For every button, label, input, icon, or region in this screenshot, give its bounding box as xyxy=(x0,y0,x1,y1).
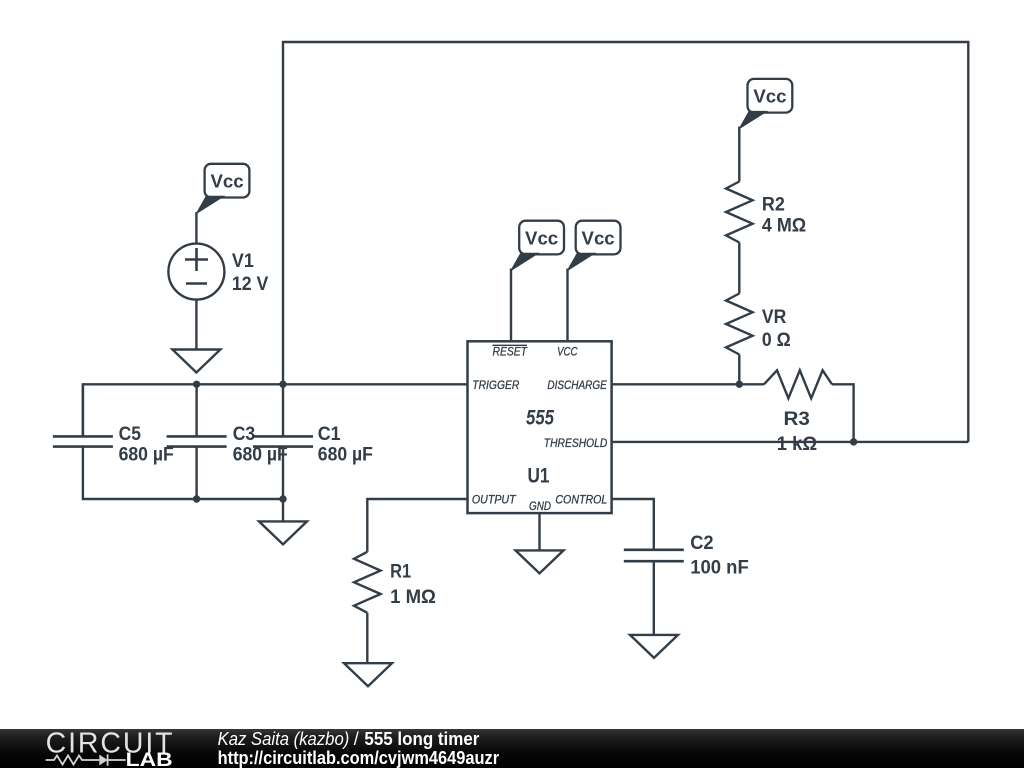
svg-text:555 long timer: 555 long timer xyxy=(364,729,479,749)
svg-text:C5: C5 xyxy=(119,423,141,445)
CircuitLab logo squiggle (resistor+diode) xyxy=(46,754,126,765)
svg-text:CONTROL: CONTROL xyxy=(555,493,607,507)
svg-text:Vcc: Vcc xyxy=(210,170,243,191)
capacitor C1 plates xyxy=(253,436,313,446)
wire R3 to THRESHOLD rail xyxy=(832,384,854,442)
svg-text:555: 555 xyxy=(526,406,554,429)
wire DISCHARGE to R3 xyxy=(612,383,764,385)
wire C5 top lead xyxy=(82,384,84,436)
wire C5 bottom lead + bottom rail xyxy=(83,447,283,499)
Vcc flag F4 (R2) xyxy=(739,79,792,129)
wire R2 to VR xyxy=(738,243,740,294)
svg-text:Vcc: Vcc xyxy=(582,227,615,248)
svg-text:C3: C3 xyxy=(233,423,256,445)
svg-text:DISCHARGE: DISCHARGE xyxy=(547,378,607,392)
svg-text:R3: R3 xyxy=(784,408,810,430)
wire R1 to ground xyxy=(366,613,368,663)
resistor VR xyxy=(726,294,753,355)
ground below V1 xyxy=(172,350,220,373)
node junction VR bottom xyxy=(736,381,743,388)
ground below U1 GND xyxy=(516,550,564,573)
wire V1 flag to source xyxy=(195,212,197,244)
svg-text:U1: U1 xyxy=(528,464,550,487)
svg-text:GND: GND xyxy=(529,499,551,513)
ground below C1 xyxy=(259,521,307,544)
resistor R1 xyxy=(354,552,381,613)
svg-text:/: / xyxy=(354,729,359,749)
svg-text:OUTPUT: OUTPUT xyxy=(472,493,517,507)
voltage source V1 xyxy=(168,244,224,300)
node junction C3 top xyxy=(193,381,200,388)
svg-text:C2: C2 xyxy=(690,532,713,554)
node junction C1 bottom xyxy=(279,495,286,502)
wire C1 top lead xyxy=(282,384,284,436)
ground below C2 xyxy=(630,635,678,658)
svg-text:4 MΩ: 4 MΩ xyxy=(762,215,806,237)
capacitor C3 plates xyxy=(167,436,227,446)
svg-text:VCC: VCC xyxy=(557,344,578,358)
svg-text:VR: VR xyxy=(762,306,786,328)
node junction C1 top / rail corner xyxy=(279,381,286,388)
svg-text:100 nF: 100 nF xyxy=(690,557,749,579)
capacitor C5 plates xyxy=(53,436,113,446)
node junction R3/THRESHOLD xyxy=(850,438,857,445)
wire C3 bottom lead xyxy=(195,447,197,499)
svg-text:THRESHOLD: THRESHOLD xyxy=(544,436,608,450)
svg-text:680 µF: 680 µF xyxy=(119,444,174,466)
svg-text:Vcc: Vcc xyxy=(525,227,558,248)
svg-text:1 MΩ: 1 MΩ xyxy=(390,586,436,608)
wire CONTROL to C2 xyxy=(612,499,654,550)
svg-text:V1: V1 xyxy=(232,250,254,272)
svg-text:C1: C1 xyxy=(318,423,341,445)
svg-text:0 Ω: 0 Ω xyxy=(762,329,791,351)
svg-text:1 kΩ: 1 kΩ xyxy=(777,433,818,455)
wire THRESHOLD rail xyxy=(612,441,969,443)
Vcc flag F1 (V1) xyxy=(196,164,249,214)
wire OUTPUT to R1 xyxy=(367,499,467,552)
wire VR to discharge rail xyxy=(738,355,740,385)
wire GND pin xyxy=(538,513,540,550)
wire V1 to ground xyxy=(195,300,197,350)
wire flag to R2 xyxy=(738,127,740,182)
wire outer loop (V1+ rail: left edge, top edge, right edge down to THRESHOLD) xyxy=(283,42,968,442)
wire top rail from C5 to TRIGGER pin xyxy=(83,384,468,436)
svg-text:Vcc: Vcc xyxy=(753,86,786,107)
resistor R2 xyxy=(726,182,753,243)
Vcc flag F2 (RESET) xyxy=(511,221,564,271)
wire VCC pin xyxy=(566,269,568,342)
svg-text:RESET: RESET xyxy=(493,344,529,358)
capacitor C2 plates xyxy=(624,550,684,561)
ground below R1 xyxy=(344,663,392,686)
wire RESET pin xyxy=(510,269,512,342)
svg-text:TRIGGER: TRIGGER xyxy=(472,378,519,392)
resistor R3 xyxy=(764,370,832,398)
svg-text:LAB: LAB xyxy=(126,750,173,768)
wire C1 bottom lead to ground xyxy=(282,447,284,522)
svg-text:R2: R2 xyxy=(762,194,785,216)
Vcc flag F3 (VCC pin) xyxy=(568,221,621,271)
svg-text:Kaz Saita (kazbo): Kaz Saita (kazbo) xyxy=(218,729,350,749)
wire C3 top lead xyxy=(195,384,197,436)
wire C2 to ground xyxy=(653,561,655,635)
svg-text:12 V: 12 V xyxy=(232,273,269,295)
svg-text:R1: R1 xyxy=(390,561,411,583)
pin RESET overline xyxy=(493,344,528,346)
op-amp/IC U1 555 box xyxy=(468,341,612,513)
svg-text:http://circuitlab.com/cvjwm464: http://circuitlab.com/cvjwm4649auzr xyxy=(218,748,500,768)
svg-text:680 µF: 680 µF xyxy=(318,444,373,466)
node junction C3 bottom xyxy=(193,495,200,502)
